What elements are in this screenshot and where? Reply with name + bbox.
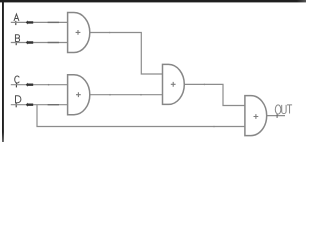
wire: gate1 output to gate3 upper input — [90, 33, 163, 75]
gate U1 (inputs A,B) — [68, 13, 90, 53]
wire: gate3 output to gate4 upper input — [184, 84, 245, 105]
input arrow B — [26, 40, 33, 44]
gate U2 (inputs C,D) — [68, 75, 90, 115]
node OUT label U — [282, 105, 286, 114]
node C label — [15, 76, 20, 83]
wire A overlap segment — [48, 21, 59, 23]
wire A — [11, 21, 68, 23]
canvas top border — [0, 0, 306, 2]
wire: D branch down to bottom rail into gate4 lower input — [37, 105, 245, 127]
node B tick — [15, 41, 17, 45]
node B label — [15, 35, 19, 42]
input arrow C — [26, 83, 33, 87]
node C tick — [15, 83, 17, 87]
canvas left border — [2, 0, 4, 142]
gate U4 plus label — [254, 114, 259, 119]
gate U3 plus label — [171, 82, 176, 87]
junction dot on gate2 output — [109, 94, 111, 96]
junction dot on gate3 output — [204, 84, 206, 86]
junction dot on bottom rail — [213, 126, 215, 128]
wire: gate4 output — [266, 115, 285, 117]
node A label — [14, 14, 19, 21]
node OUT label O — [275, 105, 281, 114]
node OUT tick — [276, 114, 278, 118]
wire D overlap segment — [48, 104, 59, 106]
junction dot on gate2 output 2 — [140, 94, 142, 96]
node OUT label T — [287, 105, 292, 114]
wire B overlap segment — [48, 42, 59, 44]
node D tick — [15, 103, 17, 107]
input arrow D — [26, 103, 33, 107]
node D label — [16, 96, 21, 103]
wire D — [11, 104, 68, 106]
gate U2 plus label — [76, 92, 81, 97]
gate U1 plus label — [76, 30, 81, 35]
node A tick — [15, 21, 17, 25]
input arrow A — [26, 20, 33, 24]
junction dot on gate1 output — [109, 32, 111, 34]
wire: gate2 output to gate3 lower input — [90, 94, 163, 96]
gate U4 (output) — [245, 96, 267, 136]
junction dot on wire C — [48, 84, 50, 86]
wire B — [11, 42, 68, 44]
wire C — [11, 84, 68, 86]
gate U3 (middle) — [163, 64, 185, 104]
